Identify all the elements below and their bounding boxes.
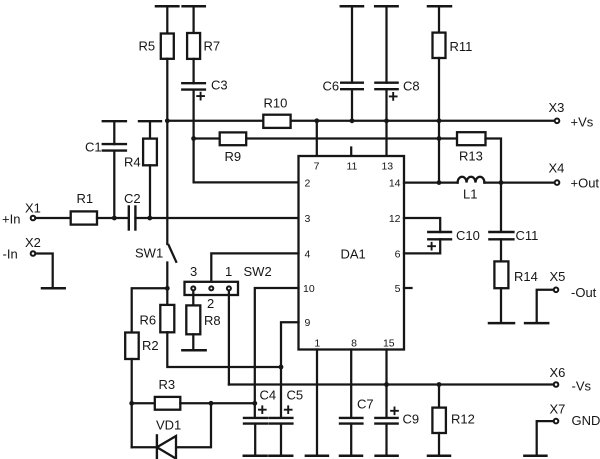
resistor R9 bbox=[220, 132, 247, 145]
resistor R1 bbox=[71, 211, 97, 224]
wire IC pin 12 to C10 bbox=[404, 218, 440, 232]
capacitor C9 bbox=[375, 417, 397, 419]
svg-text:R7: R7 bbox=[204, 39, 221, 54]
svg-text:12: 12 bbox=[389, 213, 401, 225]
svg-text:1: 1 bbox=[314, 338, 320, 350]
capacitor C5 bbox=[270, 417, 293, 419]
ground C7 bbox=[340, 455, 362, 458]
svg-text:GND: GND bbox=[572, 413, 600, 428]
node C1 junction bbox=[112, 216, 117, 221]
ground R14 bbox=[489, 322, 514, 325]
op-amp IC DA1 body bbox=[299, 156, 405, 350]
wire IC pin 8 to C7 bbox=[350, 350, 352, 418]
node C8 on rail bbox=[384, 118, 389, 123]
svg-text:R11: R11 bbox=[450, 39, 473, 54]
wire R1 to C2 bbox=[97, 217, 129, 219]
wire L1 to X4 bbox=[484, 181, 554, 183]
svg-text:X3: X3 bbox=[549, 100, 565, 115]
node R12 on -Vs rail bbox=[437, 382, 442, 387]
svg-text:X4: X4 bbox=[549, 161, 565, 176]
svg-text:C4: C4 bbox=[260, 388, 277, 403]
wire R6 to pin9 column bbox=[167, 332, 281, 367]
wire C8 to IC pin 13 bbox=[385, 89, 387, 156]
svg-text:X1: X1 bbox=[25, 201, 41, 216]
wire IC pin 5 stub bbox=[404, 287, 412, 289]
svg-text:+Vs: +Vs bbox=[571, 115, 594, 130]
wire C2 to IC pin 3 bbox=[135, 217, 298, 219]
resistor R12 bbox=[438, 385, 440, 408]
svg-text:X7: X7 bbox=[550, 402, 566, 417]
node R4 junction bbox=[147, 216, 152, 221]
SW2 pin 3 circle bbox=[191, 286, 195, 290]
wire to R2 bbox=[132, 288, 168, 332]
ground C9 bbox=[376, 455, 398, 458]
node C6 on rail bbox=[350, 118, 355, 123]
svg-text:L1: L1 bbox=[463, 187, 477, 202]
capacitor C6 bbox=[341, 5, 363, 8]
node R11 on rail bbox=[437, 118, 442, 123]
wire R9 row bbox=[194, 137, 220, 139]
svg-text:C2: C2 bbox=[124, 191, 141, 206]
wire IC pin 4 from SW2 pin2 bbox=[211, 253, 298, 286]
ground R8 bbox=[182, 349, 205, 352]
capacitor C7 bbox=[340, 417, 362, 419]
wire R5 down through input to SW1 bbox=[166, 59, 168, 244]
ground R12 bbox=[428, 455, 450, 458]
svg-text:11: 11 bbox=[346, 161, 357, 173]
svg-text:2: 2 bbox=[305, 178, 311, 190]
svg-text:9: 9 bbox=[305, 317, 311, 329]
svg-text:R10: R10 bbox=[264, 96, 288, 111]
wire IC pin 14 to L1 bbox=[404, 181, 458, 183]
terminal X3 bbox=[555, 119, 560, 124]
resistor R11 bbox=[428, 5, 451, 8]
node rail at R5 bbox=[165, 118, 170, 123]
svg-text:+In: +In bbox=[2, 212, 20, 227]
svg-text:-Vs: -Vs bbox=[572, 379, 592, 394]
wire SW2 pin3 to R8 bbox=[192, 291, 194, 306]
node R9 left junction bbox=[191, 136, 196, 141]
resistor R6 bbox=[160, 305, 174, 332]
ground X7 bbox=[524, 455, 546, 458]
ground C4 bbox=[244, 455, 267, 458]
ground pin1 bbox=[306, 455, 328, 458]
switch SW1 blade bbox=[169, 245, 177, 262]
wire +Vs rail left part bbox=[167, 120, 263, 122]
capacitor C10 bbox=[428, 231, 451, 233]
svg-text:X6: X6 bbox=[550, 365, 566, 380]
svg-text:C9: C9 bbox=[403, 412, 420, 427]
resistor R7 bbox=[183, 5, 205, 8]
terminal X4 bbox=[555, 180, 560, 185]
svg-text:X2: X2 bbox=[25, 235, 41, 250]
svg-text:4: 4 bbox=[305, 249, 311, 261]
svg-text:C7: C7 bbox=[357, 397, 374, 412]
svg-text:R5: R5 bbox=[139, 39, 156, 54]
switch SW2 body bbox=[185, 282, 239, 295]
capacitor C4 bbox=[244, 417, 267, 419]
resistor R10 bbox=[263, 115, 290, 128]
node R9 right junction bbox=[437, 136, 442, 141]
svg-text:R13: R13 bbox=[459, 149, 483, 164]
svg-text:C3: C3 bbox=[211, 78, 228, 93]
terminal X1 bbox=[31, 216, 36, 221]
node pin15 on -Vs rail bbox=[384, 382, 389, 387]
svg-text:VD1: VD1 bbox=[156, 418, 181, 433]
terminal X2 bbox=[31, 251, 36, 256]
wire IC pin 7 bbox=[316, 121, 318, 156]
wire IC pin 15 to C9 bbox=[385, 350, 387, 418]
svg-text:-Out: -Out bbox=[571, 285, 597, 300]
wire X2 bbox=[35, 254, 52, 288]
resistor R2 bbox=[125, 333, 139, 360]
svg-text:6: 6 bbox=[395, 249, 401, 261]
svg-text:SW1: SW1 bbox=[135, 246, 163, 261]
svg-text:14: 14 bbox=[389, 178, 401, 190]
svg-text:C5: C5 bbox=[287, 388, 304, 403]
diode VD1 bbox=[156, 435, 158, 459]
node R6 to C5 column junction bbox=[279, 365, 284, 370]
terminal X5 bbox=[554, 288, 559, 293]
SW2 pin 2 circle bbox=[209, 286, 213, 290]
resistor R8 bbox=[186, 305, 200, 334]
resistor R14 bbox=[494, 261, 508, 288]
svg-text:C8: C8 bbox=[403, 79, 420, 94]
ground X5 bbox=[525, 322, 548, 325]
svg-text:3: 3 bbox=[190, 264, 197, 279]
wire C10 to IC pin 6 bbox=[404, 239, 440, 253]
svg-text:R14: R14 bbox=[514, 269, 538, 284]
svg-text:C10: C10 bbox=[456, 228, 480, 243]
terminal X7 bbox=[554, 419, 559, 424]
wire R11 down to pin14 row bbox=[438, 58, 440, 183]
wire X7 to ground bbox=[537, 421, 554, 455]
inductor L1 bbox=[458, 177, 485, 183]
svg-text:R4: R4 bbox=[124, 155, 141, 170]
svg-text:SW2: SW2 bbox=[244, 264, 272, 279]
svg-text:1: 1 bbox=[225, 264, 232, 279]
ground X2 bbox=[42, 287, 65, 290]
wire IC pin 9 to C5 column bbox=[281, 322, 299, 418]
ground C5 bbox=[269, 455, 292, 458]
svg-text:C1: C1 bbox=[85, 140, 102, 155]
svg-text:8: 8 bbox=[351, 338, 357, 350]
capacitor C3 bbox=[182, 82, 205, 84]
capacitor C8 bbox=[375, 5, 397, 8]
svg-text:15: 15 bbox=[383, 338, 395, 350]
wire +Vs rail right part to X3 bbox=[291, 120, 555, 122]
capacitor C11 bbox=[489, 231, 513, 233]
wire C3 to R9 node to IC pin 2 bbox=[194, 90, 299, 183]
svg-text:2: 2 bbox=[207, 296, 214, 311]
svg-text:C11: C11 bbox=[516, 228, 539, 243]
node pin7 on rail bbox=[314, 118, 319, 123]
svg-text:10: 10 bbox=[303, 283, 315, 295]
wire -Vs rail bbox=[229, 383, 554, 385]
svg-text:C6: C6 bbox=[323, 79, 340, 94]
svg-text:X5: X5 bbox=[550, 269, 566, 284]
SW2 pin 1 circle bbox=[227, 286, 231, 290]
svg-text:R2: R2 bbox=[142, 338, 159, 353]
svg-text:R8: R8 bbox=[204, 313, 221, 328]
resistor R3 bbox=[132, 402, 155, 404]
svg-text:-In: -In bbox=[3, 247, 18, 262]
node R3 to C4 column junction bbox=[252, 401, 257, 406]
wire IC pin 1 to ground bbox=[316, 350, 318, 455]
resistor R13 bbox=[457, 132, 486, 145]
wire R13 to right column bbox=[486, 139, 502, 232]
resistor R4 bbox=[139, 120, 161, 122]
node pin14 R11 junction bbox=[437, 180, 442, 185]
node SW1 to R2 junction bbox=[165, 286, 170, 291]
capacitor C1 bbox=[103, 120, 126, 122]
svg-text:13: 13 bbox=[381, 161, 393, 173]
wire X5 to ground bbox=[537, 290, 554, 322]
svg-text:3: 3 bbox=[305, 213, 311, 225]
wire SW1 lower contact bbox=[166, 263, 168, 305]
capacitor C2 bbox=[128, 207, 130, 230]
resistor R5 bbox=[156, 5, 178, 8]
svg-text:R1: R1 bbox=[77, 191, 94, 206]
node VD1 right junction bbox=[209, 401, 214, 406]
node L1 out junction bbox=[499, 180, 504, 185]
wire IC pin 11 stub bbox=[350, 148, 352, 157]
svg-text:5: 5 bbox=[395, 283, 401, 295]
node R2 R3 junction bbox=[129, 401, 134, 406]
wire SW2 pin1 to -Vs rail bbox=[228, 291, 230, 385]
svg-text:R12: R12 bbox=[451, 412, 475, 427]
wire R13 row bbox=[439, 137, 457, 139]
svg-text:DA1: DA1 bbox=[341, 247, 366, 262]
svg-text:+Out: +Out bbox=[571, 176, 600, 191]
svg-text:7: 7 bbox=[314, 161, 320, 173]
wire X1 to R1 bbox=[35, 217, 70, 219]
svg-text:R6: R6 bbox=[140, 313, 157, 328]
wire IC pin 10 to C4 column bbox=[255, 288, 299, 418]
svg-text:R3: R3 bbox=[159, 377, 176, 392]
wire VD1 loop bbox=[132, 446, 157, 448]
svg-text:R9: R9 bbox=[225, 149, 242, 164]
terminal X6 bbox=[554, 382, 559, 387]
